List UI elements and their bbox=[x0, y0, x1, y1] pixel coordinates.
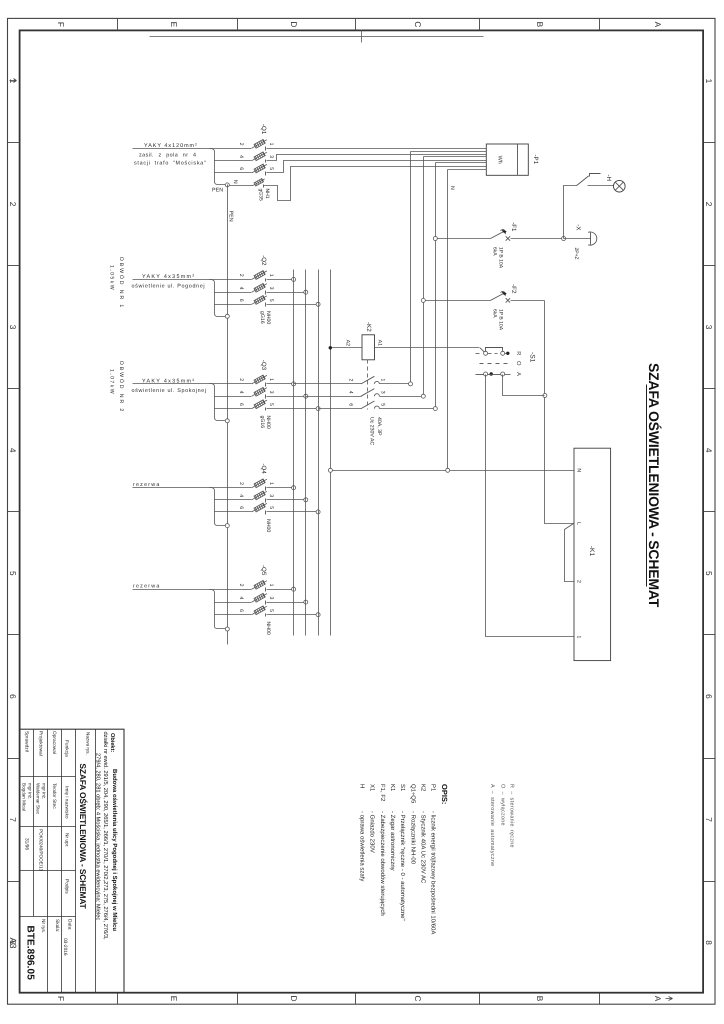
svg-text:NH00: NH00 bbox=[265, 311, 271, 324]
svg-text:PEN: PEN bbox=[212, 188, 223, 194]
svg-text:A2: A2 bbox=[344, 340, 350, 346]
fuse-switch Q5 bbox=[238, 565, 274, 635]
svg-text:1: 1 bbox=[8, 79, 18, 84]
svg-text:- Przełącznik "ręczne - 0 - au: - Przełącznik "ręczne - 0 - automatyczne… bbox=[399, 811, 406, 921]
wire S1 A-common to K1 terminal 1 bbox=[486, 375, 574, 637]
cable Q4 rezerwa bbox=[133, 487, 210, 489]
svg-text:1: 1 bbox=[379, 379, 385, 382]
svg-text:2: 2 bbox=[238, 584, 244, 587]
svg-text:4: 4 bbox=[238, 597, 244, 600]
svg-text:6: 6 bbox=[238, 506, 244, 509]
svg-text:- Zabezpieczenie obwodów steru: - Zabezpieczenie obwodów sterujących bbox=[379, 811, 386, 916]
svg-text:4: 4 bbox=[238, 494, 244, 497]
svg-text:2: 2 bbox=[238, 274, 244, 277]
junction F1 on rail L3 bbox=[433, 237, 437, 241]
breaker F1 1P B 10A bbox=[436, 222, 564, 268]
fuse-switch Q2 bbox=[238, 255, 274, 324]
cable Q5 rezerwa bbox=[133, 589, 210, 591]
svg-text:- licznik energii trójfazowy b: - licznik energii trójfazowy bezpośredni… bbox=[430, 811, 437, 934]
svg-text:N: N bbox=[576, 468, 582, 472]
wire PEN distribution bus bbox=[227, 185, 229, 645]
wire bus N bbox=[330, 270, 332, 636]
jumper K1 L to 2 bbox=[565, 524, 574, 582]
svg-text:2: 2 bbox=[238, 378, 244, 381]
legend OPIS bbox=[359, 784, 449, 934]
svg-text:P1: P1 bbox=[430, 784, 437, 792]
svg-text:- Zegar astronomiczny: - Zegar astronomiczny bbox=[389, 811, 396, 871]
title block table texts bbox=[22, 731, 73, 956]
svg-text:rezerwa: rezerwa bbox=[133, 584, 161, 590]
svg-text:-K2: -K2 bbox=[365, 322, 372, 332]
junction A2 on N bus bbox=[329, 346, 332, 349]
svg-text:NH00: NH00 bbox=[265, 622, 271, 635]
svg-text:2: 2 bbox=[576, 580, 582, 583]
main switch-fuse Q1 bbox=[252, 124, 267, 176]
svg-text:O: O bbox=[515, 361, 522, 366]
K2 value label 40A 3P bbox=[369, 417, 382, 446]
K2 mechanical link dashed bbox=[367, 360, 369, 410]
svg-text:K1: K1 bbox=[389, 784, 396, 792]
wire bus L1 bbox=[293, 270, 295, 636]
svg-text:Teodor Stec: Teodor Stec bbox=[51, 783, 57, 809]
svg-text:4: 4 bbox=[238, 287, 244, 290]
svg-text:Data:: Data: bbox=[67, 919, 73, 930]
svg-text:-H: -H bbox=[605, 174, 612, 181]
circuit label OBWOD NR 2 bbox=[109, 361, 126, 413]
selector switch S1 bbox=[515, 351, 536, 376]
svg-text:E: E bbox=[169, 22, 179, 28]
svg-text:- Stycznik 40A Uc 230V AC: - Stycznik 40A Uc 230V AC bbox=[419, 811, 426, 884]
svg-text:2: 2 bbox=[238, 482, 244, 485]
svg-text:Q1÷Q5: Q1÷Q5 bbox=[409, 784, 416, 804]
wire bus L3 bbox=[318, 270, 320, 636]
svg-text:6: 6 bbox=[238, 167, 244, 170]
svg-text:SZAFA OŚWIETLENIOWA - SCHEMAT: SZAFA OŚWIETLENIOWA - SCHEMAT bbox=[646, 363, 662, 608]
svg-text:-Q1: -Q1 bbox=[260, 124, 267, 135]
svg-text:6: 6 bbox=[238, 403, 244, 406]
wire Q1 phase L2 staircase to meter bbox=[267, 155, 487, 161]
svg-text:6: 6 bbox=[704, 694, 714, 699]
svg-text:Imię i nazwisko: Imię i nazwisko bbox=[64, 786, 70, 819]
svg-text:A: A bbox=[653, 996, 663, 1002]
K2 contact pin numbers bbox=[347, 379, 385, 407]
wire N to K1 bbox=[331, 470, 574, 472]
cable label YAKY 4x120mm2 bbox=[134, 143, 207, 167]
svg-text:3: 3 bbox=[704, 325, 714, 330]
svg-text:3: 3 bbox=[8, 325, 18, 330]
wire rail N bbox=[447, 170, 449, 471]
svg-text:BTE.896.05: BTE.896.05 bbox=[25, 926, 36, 981]
svg-text:NH00: NH00 bbox=[265, 519, 271, 532]
svg-text:1P B 10A: 1P B 10A bbox=[498, 309, 504, 331]
socket X 2P+Z bbox=[573, 224, 597, 259]
svg-text:5: 5 bbox=[8, 571, 18, 576]
svg-text:A: A bbox=[653, 22, 663, 28]
svg-text:-F2: -F2 bbox=[510, 284, 517, 294]
svg-text:F: F bbox=[56, 996, 66, 1001]
drawing title SZAFA OSWIETLENIOWA - SCHEMAT bbox=[646, 363, 662, 608]
svg-text:mgr inż.: mgr inż. bbox=[28, 783, 33, 799]
svg-text:2: 2 bbox=[704, 202, 714, 207]
junctions Q4 on buses bbox=[292, 486, 321, 514]
K2 main contacts bbox=[294, 376, 438, 410]
svg-text:03-2016: 03-2016 bbox=[62, 938, 68, 956]
svg-text:Sprawdził: Sprawdził bbox=[24, 731, 30, 753]
junctions Q5 on buses bbox=[292, 587, 321, 617]
wires Q5 below fuses + fan bbox=[210, 590, 252, 632]
svg-text:OBWÓD NR 1: OBWÓD NR 1 bbox=[118, 257, 125, 309]
junction S1 A-output on F2 wire bbox=[543, 394, 547, 398]
svg-text:A3: A3 bbox=[8, 937, 18, 948]
wire lamp branch bbox=[564, 186, 577, 239]
S1 R-position contact bbox=[476, 348, 510, 356]
wire K2 coil A2 down to N bus bbox=[331, 347, 362, 349]
fuse-switch Q4 bbox=[238, 464, 274, 533]
centering mark bottom strip bbox=[10, 79, 17, 83]
svg-text:1: 1 bbox=[268, 143, 274, 146]
svg-text:E: E bbox=[169, 996, 179, 1002]
svg-text:5: 5 bbox=[268, 167, 274, 170]
supply cable YAKY 4x120 bbox=[133, 148, 210, 150]
svg-text:Skala:: Skala: bbox=[54, 919, 60, 932]
svg-text:3: 3 bbox=[268, 155, 274, 158]
junction N bus end bbox=[328, 468, 332, 472]
svg-text:S1: S1 bbox=[399, 784, 406, 792]
svg-text:5: 5 bbox=[268, 403, 274, 406]
S1 A-position contact bbox=[476, 372, 511, 376]
svg-text:5: 5 bbox=[704, 571, 714, 576]
fuse-switch Q3 bbox=[238, 360, 274, 429]
svg-text:R: R bbox=[515, 351, 521, 355]
svg-text:NH00: NH00 bbox=[265, 416, 271, 429]
svg-text:31/96: 31/96 bbox=[24, 838, 30, 850]
svg-text:Opracował: Opracował bbox=[51, 731, 57, 755]
svg-text:Wh: Wh bbox=[497, 156, 503, 164]
svg-text:NH1: NH1 bbox=[264, 189, 270, 199]
svg-text:POK/0240/POOE/13: POK/0240/POOE/13 bbox=[39, 829, 44, 872]
svg-text:YAKY 4x120mm²: YAKY 4x120mm² bbox=[144, 143, 198, 149]
Q1 pin numbers bbox=[238, 143, 274, 171]
svg-text:4: 4 bbox=[347, 391, 353, 394]
title block drawing name bbox=[78, 732, 91, 910]
wire F2 to K1 terminal L bbox=[545, 301, 574, 524]
svg-text:Nr upr.: Nr upr. bbox=[64, 833, 70, 847]
svg-text:1: 1 bbox=[576, 635, 582, 638]
svg-text:7: 7 bbox=[704, 817, 714, 822]
svg-text:4: 4 bbox=[238, 155, 244, 158]
svg-text:8: 8 bbox=[704, 940, 714, 945]
svg-text:2: 2 bbox=[238, 143, 244, 146]
wire N from NH1 fuse dog-leg to meter bbox=[264, 167, 487, 201]
svg-text:A1: A1 bbox=[376, 340, 382, 346]
svg-text:5: 5 bbox=[268, 506, 274, 509]
svg-text:O – wyłączone: O – wyłączone bbox=[500, 784, 506, 826]
lamp H bbox=[605, 174, 625, 192]
wire N stub from PEN junction to NH1 fuse bbox=[228, 185, 253, 187]
svg-text:N: N bbox=[232, 180, 238, 184]
title block bbox=[20, 729, 125, 993]
contactor K2 coil bbox=[344, 322, 382, 360]
svg-text:-S1: -S1 bbox=[529, 352, 536, 363]
svg-text:1: 1 bbox=[268, 274, 274, 277]
svg-text:6kA: 6kA bbox=[491, 309, 497, 318]
svg-text:D: D bbox=[289, 21, 299, 27]
svg-text:-Q4: -Q4 bbox=[260, 464, 267, 475]
wire rail L1 bbox=[410, 152, 412, 384]
svg-text:3: 3 bbox=[379, 391, 385, 394]
svg-text:X1: X1 bbox=[369, 784, 376, 792]
circuit label OBWOD NR 1 bbox=[109, 257, 126, 309]
wire Q3 outputs to distribution buses bbox=[267, 384, 319, 409]
junction F2 on rail L2 bbox=[421, 298, 425, 302]
wire Q4 outputs to distribution buses bbox=[267, 488, 319, 512]
svg-text:1,07kW: 1,07kW bbox=[109, 369, 115, 395]
svg-text:3: 3 bbox=[268, 287, 274, 290]
svg-text:D: D bbox=[289, 996, 299, 1002]
svg-text:mgr inż.: mgr inż. bbox=[42, 783, 47, 799]
svg-text:6: 6 bbox=[238, 609, 244, 612]
svg-text:C: C bbox=[413, 996, 423, 1002]
wire F1 to socket X bbox=[564, 238, 591, 240]
title block object text bbox=[94, 732, 118, 940]
svg-text:-X: -X bbox=[575, 224, 582, 230]
svg-text:-Q5: -Q5 bbox=[260, 565, 267, 576]
svg-text:stacji trafo ”Mościska”: stacji trafo ”Mościska” bbox=[134, 160, 207, 166]
svg-text:OBWÓD NR 2: OBWÓD NR 2 bbox=[118, 361, 125, 413]
svg-text:3: 3 bbox=[268, 494, 274, 497]
junctions Q2 on buses bbox=[292, 277, 321, 306]
svg-text:- Gniazdo 230V: - Gniazdo 230V bbox=[369, 811, 376, 853]
junction lamp branch on F1 wire bbox=[562, 237, 566, 241]
wire K2 coil A1 up to S1 bbox=[375, 347, 480, 349]
svg-text:F: F bbox=[56, 22, 66, 27]
svg-text:C: C bbox=[413, 21, 423, 27]
wires meter outputs to rails bbox=[411, 152, 487, 170]
wires Q4 below fuses + fan bbox=[210, 488, 252, 528]
breaker F2 1P B 10A bbox=[424, 284, 545, 331]
junction N rail end bbox=[446, 468, 450, 472]
svg-text:Budowa oświetlenia ulicy Pogod: Budowa oświetlenia ulicy Pogodnej i Spok… bbox=[111, 769, 118, 931]
svg-text:Nazwa rys.: Nazwa rys. bbox=[86, 732, 91, 755]
svg-text:-Q2: -Q2 bbox=[260, 255, 267, 266]
wires Q2 below fuses + fan bbox=[210, 280, 252, 319]
svg-text:L: L bbox=[576, 522, 582, 525]
centering mark right strip bbox=[666, 997, 673, 1001]
svg-text:Uc 230V AC: Uc 230V AC bbox=[369, 417, 375, 446]
wire S1 A-contact to F2/K1 line bbox=[503, 375, 545, 396]
svg-text:OPIS:: OPIS: bbox=[440, 784, 449, 804]
svg-text:A: A bbox=[515, 372, 521, 376]
svg-text:K2: K2 bbox=[419, 784, 426, 792]
wire bus L2 bbox=[305, 270, 307, 636]
svg-text:Nr rys.: Nr rys. bbox=[40, 919, 46, 933]
svg-text:4: 4 bbox=[238, 391, 244, 394]
svg-text:gG35: gG35 bbox=[258, 189, 264, 201]
svg-text:Funkcja: Funkcja bbox=[64, 740, 70, 757]
svg-text:R – sterowanie ręczne: R – sterowanie ręczne bbox=[509, 784, 515, 848]
svg-text:Waldemar Stec: Waldemar Stec bbox=[36, 783, 41, 815]
svg-text:H: H bbox=[359, 784, 366, 788]
svg-text:- Rozłączniki NH-00: - Rozłączniki NH-00 bbox=[409, 811, 416, 865]
svg-text:-Q3: -Q3 bbox=[260, 360, 267, 371]
wire Q1 phase L3 staircase to meter bbox=[267, 161, 487, 173]
svg-text:YAKY 4x35mm²: YAKY 4x35mm² bbox=[142, 274, 195, 280]
svg-text:6: 6 bbox=[238, 299, 244, 302]
svg-text:zasil. z pola nr 4: zasil. z pola nr 4 bbox=[139, 152, 196, 158]
svg-text:-K1: -K1 bbox=[588, 546, 595, 557]
svg-text:3: 3 bbox=[268, 597, 274, 600]
svg-text:5: 5 bbox=[268, 609, 274, 612]
svg-text:rezerwa: rezerwa bbox=[133, 482, 161, 488]
svg-text:-P1: -P1 bbox=[532, 155, 539, 165]
svg-text:oświetlenie ul. Spokojnej: oświetlenie ul. Spokojnej bbox=[132, 388, 207, 394]
svg-text:5: 5 bbox=[379, 403, 385, 406]
wire Q5 outputs to distribution buses bbox=[267, 590, 319, 615]
junctions Q3 on buses bbox=[292, 382, 321, 411]
svg-text:1: 1 bbox=[704, 79, 714, 84]
svg-text:gG16: gG16 bbox=[259, 311, 265, 324]
svg-text:6: 6 bbox=[347, 403, 353, 406]
svg-text:Obiekt:: Obiekt: bbox=[109, 733, 116, 752]
svg-text:5: 5 bbox=[268, 299, 274, 302]
svg-text:N: N bbox=[449, 186, 455, 190]
svg-text:4: 4 bbox=[8, 448, 18, 453]
svg-text:- oprawa oświetlenia szafy: - oprawa oświetlenia szafy bbox=[359, 811, 366, 881]
cable Q3 YAKY 4x35 bbox=[133, 383, 210, 385]
svg-text:SZAFA OŚWIETLENIOWA - SCHEMAT: SZAFA OŚWIETLENIOWA - SCHEMAT bbox=[78, 763, 88, 909]
wire rail L2 bbox=[423, 157, 425, 397]
svg-text:-F1: -F1 bbox=[510, 222, 517, 232]
svg-text:4: 4 bbox=[704, 448, 714, 453]
svg-text:gG16: gG16 bbox=[259, 416, 265, 429]
wire Q1 phase L1 from fuse to meter bbox=[267, 148, 487, 150]
cable Q2 YAKY 4x35 bbox=[133, 279, 210, 281]
svg-text:A – sterowanie automatyczne: A – sterowanie automatyczne bbox=[489, 784, 495, 866]
switch for lamp H bbox=[577, 174, 601, 186]
svg-text:Podpis: Podpis bbox=[64, 879, 70, 894]
svg-text:oświetlenie ul. Pogodnej: oświetlenie ul. Pogodnej bbox=[132, 283, 206, 289]
svg-text:1: 1 bbox=[268, 378, 274, 381]
frame auxiliary line left margin bbox=[150, 30, 484, 43]
svg-text:40A, 3P: 40A, 3P bbox=[376, 417, 382, 436]
S1 O-position dashes bbox=[480, 363, 508, 365]
wire to lamp H bbox=[588, 185, 614, 187]
svg-text:B: B bbox=[535, 22, 545, 28]
svg-text:działki nr ewid. 291/5, 204, 2: działki nr ewid. 291/5, 204, 290, 265/1,… bbox=[102, 732, 109, 940]
legend R O A meanings bbox=[489, 784, 515, 866]
svg-text:1,05kW: 1,05kW bbox=[109, 265, 115, 291]
svg-text:1P B 10A: 1P B 10A bbox=[498, 247, 504, 269]
svg-text:1: 1 bbox=[268, 482, 274, 485]
svg-text:F1, F2: F1, F2 bbox=[379, 784, 386, 802]
svg-text:1: 1 bbox=[268, 584, 274, 587]
svg-text:7: 7 bbox=[8, 817, 18, 822]
astronomical clock K1 bbox=[574, 448, 611, 660]
svg-text:279/4, 280, 281 obręb: 4 Mośc: 279/4, 280, 281 obręb: 4 Mościska, jedno… bbox=[94, 753, 101, 920]
svg-text:2P+Z: 2P+Z bbox=[573, 248, 579, 260]
wires Q3 below fuses + fan bbox=[210, 384, 252, 423]
wire rail L3 bbox=[435, 163, 437, 409]
svg-text:PEN: PEN bbox=[228, 211, 234, 222]
fuse NH1 gG35 on N conductor bbox=[252, 179, 270, 201]
svg-text:Bogdan Mical: Bogdan Mical bbox=[22, 783, 27, 811]
svg-text:Projektował: Projektował bbox=[38, 731, 44, 757]
energy meter P1 bbox=[486, 144, 528, 176]
supply cable fan Q1 bbox=[210, 149, 252, 187]
svg-text:6kA: 6kA bbox=[491, 247, 497, 256]
svg-text:2: 2 bbox=[8, 202, 18, 207]
svg-text:B: B bbox=[535, 996, 545, 1002]
svg-text:2: 2 bbox=[347, 379, 353, 382]
svg-text:3: 3 bbox=[268, 391, 274, 394]
svg-text:YAKY 4x35mm²: YAKY 4x35mm² bbox=[142, 378, 195, 384]
svg-text:6: 6 bbox=[8, 694, 18, 699]
wire Q2 outputs to distribution buses bbox=[267, 280, 319, 305]
